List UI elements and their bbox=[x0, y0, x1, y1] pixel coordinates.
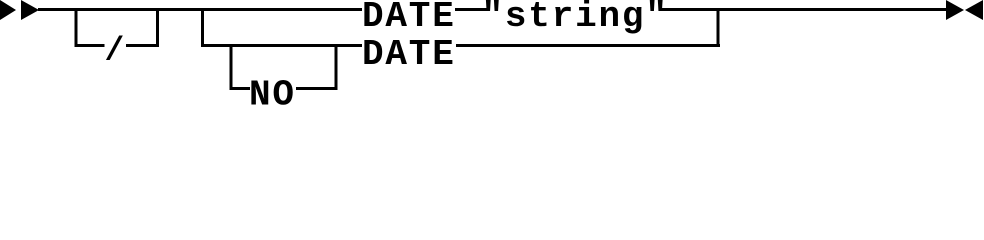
wire: optional-slash branch right vertical bbox=[156, 8, 159, 47]
wire: main line segment DATE to string bbox=[455, 8, 487, 11]
wire: NO option lower line left segment bbox=[230, 87, 251, 90]
wire: optional-slash branch lower line right segment bbox=[126, 44, 159, 47]
end symbol left-facing arrowhead bbox=[965, 0, 983, 20]
svg-text:"string": "string" bbox=[482, 0, 669, 37]
syntax railroad diagram 984x108 bbox=[0, 0, 984, 108]
wire: NO option lower line right segment bbox=[296, 87, 338, 90]
wire: merge vertical up to main line bbox=[717, 8, 720, 47]
svg-text:NO: NO bbox=[249, 75, 296, 109]
wire: main line segment string to end bbox=[661, 8, 946, 11]
start symbol left arrowhead 2 bbox=[21, 0, 39, 20]
wire: optional-slash branch lower line left segment bbox=[75, 44, 105, 47]
wire: row2 line from split to DATE bbox=[201, 44, 362, 47]
wire: NO option left vertical bbox=[230, 44, 233, 90]
svg-text:DATE: DATE bbox=[362, 34, 456, 75]
wire: optional-slash branch left vertical bbox=[75, 8, 78, 47]
wire: row2 line after DATE to merge bbox=[456, 44, 720, 47]
end symbol right arrowhead bbox=[946, 0, 964, 20]
start symbol left arrowhead 1 bbox=[0, 0, 16, 20]
svg-text:/: / bbox=[105, 33, 127, 70]
wire: NO option right vertical bbox=[335, 44, 338, 90]
wire: main line segment from start to DATE bbox=[38, 8, 362, 11]
svg-text:DATE: DATE bbox=[362, 0, 456, 37]
wire: alternative branch split vertical bbox=[201, 8, 204, 47]
